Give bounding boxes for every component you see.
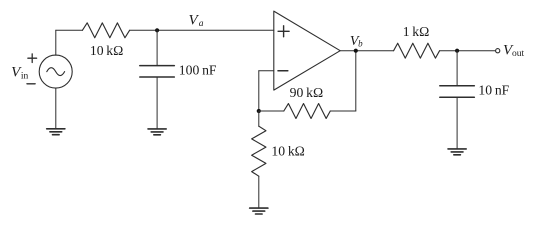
op-amp plus input sign bbox=[278, 26, 289, 37]
resistor R4 1k zigzag bbox=[394, 43, 440, 58]
ground G3 under C2 bbox=[448, 149, 466, 155]
ground G1 under source bbox=[47, 129, 65, 135]
terminal Vout open circle bbox=[496, 49, 500, 53]
source plus sign bbox=[28, 54, 37, 63]
node Vb dot bbox=[354, 49, 358, 53]
wire feedback riser up to Vb bbox=[355, 51, 357, 111]
capacitor C1 100nF plates bbox=[140, 66, 175, 77]
wire node down to R3 top bbox=[258, 111, 260, 126]
resistor R1 10k zigzag bbox=[82, 23, 129, 38]
wire R2 right to feedback riser bbox=[330, 110, 356, 112]
svg-text:10 kΩ: 10 kΩ bbox=[90, 43, 123, 58]
ground G4 under R3 bbox=[250, 208, 268, 214]
wire minus node vertical bbox=[258, 71, 260, 111]
wire minus input stub bbox=[259, 70, 274, 72]
wire source top lead bbox=[55, 30, 57, 55]
resistor R2 90k zigzag bbox=[284, 104, 331, 119]
svg-text:90 kΩ: 90 kΩ bbox=[290, 85, 323, 100]
wire node to R2 left bbox=[259, 110, 284, 112]
source Vin AC circle bbox=[39, 55, 72, 88]
svg-text:10 kΩ: 10 kΩ bbox=[271, 144, 304, 159]
svg-text:1 kΩ: 1 kΩ bbox=[403, 24, 430, 39]
svg-text:b: b bbox=[358, 38, 363, 48]
svg-text:10 nF: 10 nF bbox=[478, 83, 509, 98]
source minus sign bbox=[27, 83, 35, 85]
svg-text:in: in bbox=[21, 72, 29, 82]
op-amp U1 triangle bbox=[274, 11, 340, 90]
wire op-amp output to R4 bbox=[340, 50, 393, 52]
svg-text:100 nF: 100 nF bbox=[179, 63, 217, 78]
capacitor C2 10nF plates bbox=[440, 86, 475, 97]
wire top rail right (R1 to op-amp + input) bbox=[130, 29, 274, 31]
wire source bottom lead bbox=[55, 88, 57, 129]
wire node C down to C2 bbox=[456, 51, 458, 86]
svg-text:a: a bbox=[199, 19, 204, 29]
node C dot (output RC junction) bbox=[455, 49, 459, 53]
wire top rail left (source to R1) bbox=[56, 29, 83, 31]
svg-text:out: out bbox=[512, 49, 525, 59]
wire node A down to C1 bbox=[156, 30, 158, 65]
source sine wave bbox=[47, 68, 65, 76]
wire R3 bottom to ground bbox=[258, 176, 260, 208]
resistor R3 10k vertical zigzag bbox=[252, 126, 266, 176]
ground G2 under C1 bbox=[148, 129, 166, 135]
wire C1 bottom to ground bbox=[156, 77, 158, 129]
node A dot (Va) bbox=[155, 28, 159, 32]
op-amp minus input sign bbox=[278, 70, 288, 72]
wire C2 bottom to ground bbox=[456, 97, 458, 149]
node B dot (inverting input junction) bbox=[257, 109, 261, 113]
wire R4 right to output terminal bbox=[440, 50, 496, 52]
